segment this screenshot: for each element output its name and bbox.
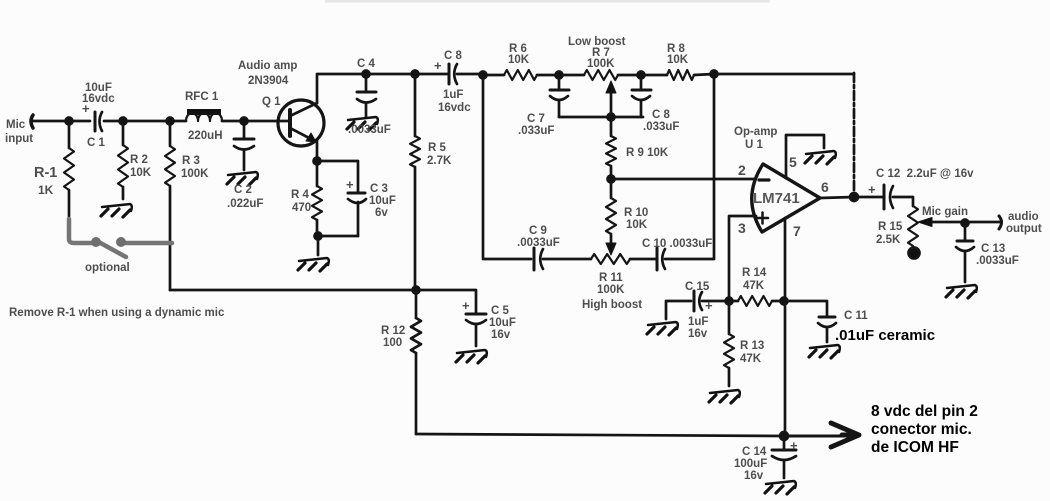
svg-text:R 13: R 13 [740,340,764,352]
resistor R9 [606,117,616,179]
svg-text:2N3904: 2N3904 [248,75,289,87]
wire: switch to R3 line [122,241,172,246]
svg-text:.022uF: .022uF [227,198,263,210]
svg-text:audio: audio [1008,211,1039,223]
svg-text:100K: 100K [181,168,209,180]
svg-text:.0033uF: .0033uF [517,237,560,249]
node: C2 junction [241,118,248,125]
inductor RFC1 [186,109,222,121]
ground below R2 [101,204,132,217]
svg-text:Q 1: Q 1 [262,96,281,108]
wire: pin 3 from C15 node [729,216,756,301]
svg-text:+: + [346,177,354,192]
svg-text:C 2: C 2 [234,184,252,196]
op-amp minus input mark [759,178,769,181]
wire: R7 wiper arrow [606,81,616,117]
ground below C11 [809,345,840,358]
svg-text:Remove R-1 when using a dynami: Remove R-1 when using a dynamic mic [9,307,225,319]
capacitor C1 [95,112,102,131]
svg-text:470: 470 [292,202,311,214]
svg-text:.01uF ceramic: .01uF ceramic [835,327,935,344]
svg-text:.0033uF: .0033uF [348,124,391,136]
audio output terminal [999,216,1002,229]
svg-text:100uF: 100uF [734,458,767,470]
svg-text:C 15: C 15 [685,281,710,293]
svg-text:C 4: C 4 [357,58,376,70]
svg-text:C 3: C 3 [370,183,388,195]
capacitor C14 [772,436,796,478]
svg-text:output: output [1006,223,1042,235]
resistor R4 [312,161,322,236]
capacitor C11 [818,317,836,342]
arrowhead 8vdc output [831,423,859,447]
node: input / R-1 junction [66,118,73,125]
op-amp plus input mark [757,213,768,224]
resistor R12 [411,290,421,434]
svg-text:R 10: R 10 [624,207,648,219]
resistor R8 [667,70,694,80]
node: C13 junction [962,220,969,227]
svg-text:1uF: 1uF [688,316,708,328]
svg-text:10K: 10K [508,54,530,66]
svg-text:C 10 .0033uF: C 10 .0033uF [642,238,712,250]
node: C4 junction on rail [363,71,370,78]
resistor R11 [591,254,630,264]
svg-text:R 9 10K: R 9 10K [626,147,669,159]
svg-text:de ICOM HF: de ICOM HF [871,439,959,456]
svg-text:R 11: R 11 [599,272,623,284]
wire: C9 to R11 [543,258,591,261]
capacitor C5 [466,314,486,346]
svg-text:+: + [790,438,798,453]
transistor Q1 [278,100,324,146]
wire: rail C4 to R5 node [366,73,415,76]
svg-text:47K: 47K [740,353,762,365]
wire: rail to C8 [415,73,449,76]
wire: feedback line right vertical [853,73,856,197]
wire: R4 bottom to C3 bottom [318,235,358,238]
wire: R11 to C10 [630,258,657,261]
svg-text:100: 100 [383,337,402,349]
wire: C1 to RFC1 [104,120,186,123]
svg-text:Audio amp: Audio amp [238,60,297,72]
ground at pin 5 [805,151,836,164]
svg-text:.033uF: .033uF [518,125,554,137]
node: feedback left junction [480,72,487,79]
wire: arrow shaft 8vdc [784,435,846,438]
svg-text:.0033uF: .0033uF [976,255,1019,267]
capacitor C10 [657,248,665,270]
svg-text:C 8: C 8 [652,109,671,121]
wire: emitter to C3 [317,161,358,192]
svg-text:C 14: C 14 [742,446,767,458]
wire: bottom supply rail [416,434,784,436]
node: C8b junction [638,72,645,79]
node: R4/C3 bottom junction [315,233,322,240]
wire: RFC1 to Q1 base [222,120,289,123]
svg-text:LM741: LM741 [753,190,800,207]
svg-text:2.5K: 2.5K [876,234,901,246]
svg-text:2.7K: 2.7K [427,155,452,167]
wire: R3 bottom rail to R12 node [170,289,415,292]
R15 bottom terminal dot [909,248,920,259]
resistor R15 [908,206,918,246]
resistor R5 [410,74,420,290]
svg-text:16vdc: 16vdc [438,102,471,114]
ground below C14 [765,481,796,494]
node: C7 junction [556,72,563,79]
svg-text:C 13: C 13 [981,243,1005,255]
capacitor C8 .033uF [632,75,651,117]
wire: ground to C15 [666,301,691,319]
resistor R3 [165,121,175,290]
capacitor C12 [884,185,893,209]
svg-text:220uH: 220uH [188,130,223,142]
svg-text:C 8: C 8 [444,50,463,62]
node: pin3/R13/R14 junction [726,298,733,305]
wire: R8 to right corner [694,74,854,75]
svg-text:C 12 2.2uF @ 16v: C 12 2.2uF @ 16v [876,168,974,180]
node: R2 junction [120,118,127,125]
resistor R1 [64,121,74,221]
node: output junction [850,193,858,201]
wire: pin 7 line down to bottom rail [784,301,787,436]
svg-text:7: 7 [793,223,801,239]
resistor R6 [504,70,537,80]
switch arm [95,240,126,257]
resistor R10 [606,179,616,234]
capacitor C15 [694,291,702,311]
svg-text:10K: 10K [130,167,152,179]
svg-text:5: 5 [789,154,797,170]
ground below C5 [456,350,487,363]
svg-text:+: + [705,298,713,313]
svg-text:+: + [462,298,470,313]
svg-text:3: 3 [738,220,746,236]
ground at C15 left [647,322,678,335]
wire: R15 wiper line [918,218,1000,227]
node: C14 junction [780,432,788,440]
svg-text:2: 2 [738,162,746,178]
wire: R10 wiper arrow to R11 [606,234,616,255]
svg-text:R 4: R 4 [291,189,310,201]
svg-text:Op-amp: Op-amp [734,126,777,138]
wire: mic input line to Q1 base [32,120,90,123]
capacitor C3 [348,193,366,236]
ground below C13 [946,285,977,298]
node: R7 wiper junction [608,114,615,121]
svg-text:10K: 10K [626,219,648,231]
svg-text:C 7: C 7 [527,113,545,125]
resistor R13 [724,301,734,386]
svg-text:47K: 47K [743,280,765,292]
gray optional wire from R-1 [69,219,172,257]
capacitor C2 [234,121,254,170]
capacitor C4 [357,74,376,117]
resistor R7 [584,70,618,80]
svg-text:C 11: C 11 [844,310,868,322]
scan artifact top bar [325,0,770,3]
node: R5/R12 junction [413,287,420,294]
resistor R14 [738,296,772,306]
svg-text:16v: 16v [744,470,764,482]
svg-text:Mic: Mic [6,119,26,131]
svg-text:1uF: 1uF [443,89,463,101]
svg-text:+: + [82,101,90,116]
wire: junction to op-amp pin 2 [611,178,754,181]
node: emitter junction [314,158,321,165]
svg-text:C 1: C 1 [87,137,106,149]
wire: pin 6 output [820,197,884,198]
node: R8 right junction [711,71,718,78]
node: R14 right junction [781,298,788,305]
ground below C4 [347,117,378,130]
svg-text:U 1: U 1 [745,139,764,151]
ground below R4 [298,258,329,271]
svg-text:conector mic.: conector mic. [871,421,972,438]
svg-text:+: + [868,182,876,197]
svg-text:10K: 10K [667,54,689,66]
svg-text:R 12: R 12 [381,325,405,337]
svg-text:6v: 6v [375,207,388,219]
mic input terminal [31,115,33,128]
svg-text:100K: 100K [597,284,625,296]
wire: R6 to R7 [537,74,584,77]
wire: C15 to R14 [702,300,738,303]
wire: Q1 emitter [316,141,319,161]
svg-text:C 5: C 5 [491,305,510,317]
svg-text:RFC 1: RFC 1 [185,91,219,103]
svg-text:R-1: R-1 [34,165,57,181]
svg-text:100K: 100K [587,58,615,70]
svg-text:10uF: 10uF [489,317,516,329]
capacitor C13 [956,222,974,282]
svg-text:.033uF: .033uF [643,121,679,133]
svg-text:R 3: R 3 [182,155,200,167]
ground below C2 [227,172,258,185]
svg-text:C 9: C 9 [529,225,547,237]
wire: C12 to R15 [893,197,913,206]
svg-text:R 2: R 2 [130,154,148,166]
capacitor C9 [534,248,543,270]
resistor R2 [118,121,128,199]
svg-text:16v: 16v [688,328,708,340]
svg-text:1K: 1K [38,183,54,197]
wire: C7 bottom to C8 bottom [559,116,643,119]
svg-text:R 15: R 15 [878,221,903,233]
wire: R7 to R8 [618,74,667,77]
svg-text:8 vdc del pin 2: 8 vdc del pin 2 [871,403,978,420]
wire: feedback box left vertical [483,75,531,259]
op-amp U1 LM741 triangle [752,164,820,232]
wire: C10 to right vertical of feedback box [665,74,714,259]
node: R3 junction [167,118,174,125]
svg-text:Mic gain: Mic gain [922,206,968,218]
node: R5 junction on rail [412,71,419,78]
wire: pin 5 to ground [786,135,824,178]
wire: C8 to R6 node [457,74,504,75]
switch contact dots [91,237,126,247]
svg-text:+: + [434,58,442,73]
svg-text:R 14: R 14 [742,267,767,279]
wire: R12 node to C5 [416,290,476,313]
svg-text:16v: 16v [491,329,511,341]
svg-text:10uF: 10uF [369,195,396,207]
ground below R13 [709,390,740,403]
wire: pin 7 down [784,218,787,301]
svg-text:R 5: R 5 [428,142,447,154]
svg-text:High boost: High boost [582,299,642,311]
svg-text:optional: optional [85,262,130,274]
wire: Q1 collector to top rail [317,74,366,103]
wire: stem to ground below R4 [317,236,320,255]
node: R9/R10 junction [608,176,615,183]
svg-text:6: 6 [821,179,829,195]
svg-text:input: input [5,133,33,145]
capacitor C7 [550,75,569,117]
wire: R14 to C11 branch [772,301,827,316]
capacitor C8 series [449,64,457,84]
